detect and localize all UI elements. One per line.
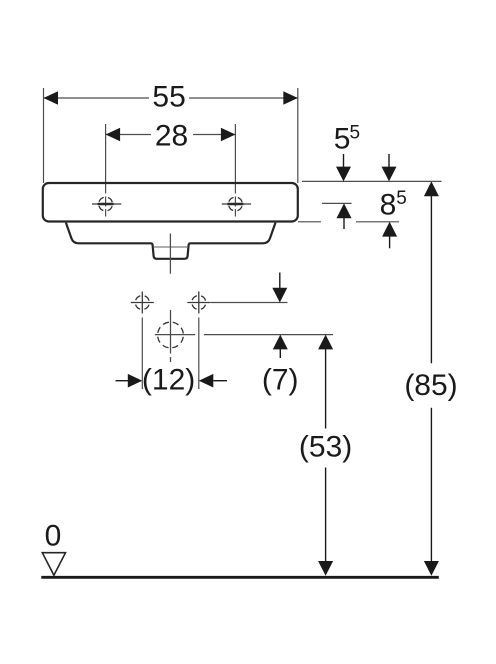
ground line	[41, 576, 439, 579]
fixing hole left: cross	[131, 302, 154, 304]
arrow 28 right	[221, 128, 236, 142]
drain center line	[169, 234, 171, 274]
tap hole left: horizontal axis	[92, 203, 121, 205]
(12) left arrow	[116, 380, 130, 382]
extension line 28 left (centerline through tap hole)	[105, 124, 107, 217]
tap hole left: slot bar	[98, 203, 114, 206]
fixing hole right: dashed circle	[192, 296, 206, 310]
(12) extension line left	[141, 318, 143, 390]
dimension line 55	[44, 97, 298, 99]
svg-text:8: 8	[380, 189, 397, 222]
arrow 55 right	[283, 91, 298, 105]
(12) extension line right	[198, 318, 200, 390]
tap hole right: horizontal axis	[222, 203, 251, 205]
drain inner line	[154, 246, 188, 248]
fixing hole right: cross	[187, 302, 210, 304]
extension line 28 right (centerline through tap hole)	[234, 124, 236, 217]
label 55 background	[149, 83, 189, 109]
basin rim box	[43, 183, 298, 222]
rim top extension line right	[302, 180, 442, 182]
fixing hole left: dashed circle	[135, 296, 149, 310]
5.5 lower reference stub (tap axis)	[322, 202, 352, 204]
(12) right arrow	[199, 374, 214, 388]
svg-text:(85): (85)	[404, 369, 457, 402]
tap hole right: dashed circle	[229, 197, 243, 211]
siphon dashed circle	[158, 322, 184, 348]
8.5 dim: down arrow to rim top	[388, 154, 390, 168]
svg-text:28: 28	[155, 119, 188, 152]
svg-text:5: 5	[350, 123, 361, 144]
5.5 dim: down arrow to rim top	[343, 154, 345, 168]
tap hole right: slot bar	[227, 203, 243, 206]
arrow 28 left	[106, 128, 121, 142]
extension line 55 left	[43, 88, 45, 183]
siphon vertical center line	[170, 310, 172, 354]
siphon axis extension segments	[155, 334, 195, 336]
svg-text:5: 5	[396, 188, 407, 209]
label 28 background	[151, 122, 193, 148]
dimension line 28	[106, 134, 236, 136]
basin lower body with drain outlet	[66, 223, 276, 259]
(53) dimension line	[318, 335, 333, 350]
datum zero triangle	[42, 553, 65, 576]
svg-text:(7): (7)	[262, 364, 299, 397]
extension line 55 right	[297, 88, 299, 183]
svg-text:55: 55	[152, 80, 185, 113]
5.5 dim: up arrow to tap axis	[337, 203, 352, 218]
svg-text:(53): (53)	[299, 431, 352, 464]
tap hole left: dashed circle	[99, 197, 113, 211]
svg-text:5: 5	[334, 123, 351, 156]
svg-text:(12): (12)	[142, 364, 195, 397]
(85) dimension line	[424, 181, 439, 196]
fixing hole axis extension	[211, 302, 288, 304]
svg-text:0: 0	[45, 519, 62, 552]
rim bottom extension segments (8.5 reference)	[298, 221, 321, 223]
8.5 dim: up arrow to rim bottom	[382, 222, 397, 237]
(7) dim: up arrow to siphon axis	[273, 335, 288, 350]
(7) dim: down arrow to fixing axis	[279, 273, 281, 290]
arrow 55 left	[44, 91, 59, 105]
